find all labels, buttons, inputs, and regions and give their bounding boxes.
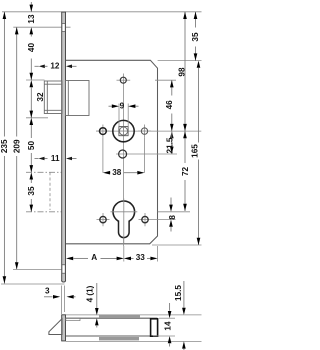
follower horizontal centerline bbox=[96, 130, 201, 132]
svg-text:235: 235 bbox=[0, 139, 9, 153]
lower right fixing hole bbox=[139, 213, 158, 226]
svg-text:9: 9 bbox=[120, 102, 125, 111]
side view: lock case bbox=[66, 318, 158, 336]
dim 13 bbox=[27, 2, 36, 37]
extension lines faceplate down to side view bbox=[61, 286, 63, 315]
dim 14 bbox=[164, 303, 173, 347]
svg-text:4 (1): 4 (1) bbox=[85, 285, 94, 302]
svg-text:35: 35 bbox=[27, 186, 36, 196]
deadbolt thrown position dashed bbox=[49, 172, 51, 210]
extension case right edge down to 33 dim bbox=[157, 246, 159, 262]
hole left of follower bbox=[96, 125, 109, 138]
dim 165 bbox=[191, 61, 201, 245]
case top extension right bbox=[158, 60, 202, 62]
faceplate bbox=[61, 12, 65, 283]
dim 11 bbox=[35, 154, 77, 163]
latch bottom extension line bbox=[26, 117, 48, 119]
svg-text:A: A bbox=[91, 253, 97, 262]
svg-text:35: 35 bbox=[191, 32, 200, 42]
dim 35 left bbox=[27, 172, 36, 212]
bottom screw hole extension line bbox=[13, 268, 62, 270]
lock case outline bbox=[66, 60, 158, 244]
svg-text:209: 209 bbox=[12, 139, 21, 153]
faceplate bottom extension line bbox=[1, 283, 65, 285]
svg-text:72: 72 bbox=[181, 167, 190, 177]
lower left fixing hole bbox=[97, 213, 110, 226]
top screw hole extension line bbox=[13, 26, 70, 28]
svg-text:21.5: 21.5 bbox=[165, 137, 174, 153]
dim 40 bbox=[27, 43, 36, 80]
svg-text:46: 46 bbox=[165, 100, 174, 110]
cylinder centerline left extension bbox=[26, 211, 66, 213]
svg-text:40: 40 bbox=[27, 43, 36, 53]
dim 98 bbox=[178, 12, 187, 131]
dim 38 bbox=[103, 168, 145, 177]
follower (handle hub) bbox=[113, 120, 134, 141]
case top side extension bbox=[159, 317, 175, 319]
svg-text:11: 11 bbox=[51, 154, 60, 163]
side view: latch bevel bbox=[49, 319, 62, 335]
dim 33 bbox=[124, 253, 158, 262]
svg-text:13: 13 bbox=[27, 14, 36, 24]
euro profile cylinder hole bbox=[111, 199, 138, 244]
dim 12 bbox=[35, 62, 77, 71]
side view: bottom plate band bbox=[99, 337, 139, 340]
side view: end cap bbox=[151, 319, 158, 336]
svg-text:165: 165 bbox=[191, 144, 200, 158]
dim 35 right bbox=[191, 12, 200, 61]
svg-text:3: 3 bbox=[45, 287, 50, 296]
dim 15.5 bbox=[174, 281, 186, 350]
dim 21.5 bbox=[165, 131, 174, 154]
hole right of follower bbox=[138, 125, 151, 138]
extension from left hole down to 38 dim bbox=[102, 138, 104, 173]
svg-text:15.5: 15.5 bbox=[174, 285, 183, 301]
top faceplate screw slot bbox=[62, 24, 65, 32]
dim 9 (follower square) bbox=[109, 102, 139, 127]
dim 32 bbox=[30, 80, 46, 118]
side view: faceplate top extension bbox=[66, 314, 202, 316]
cylinder center extension right bbox=[158, 211, 190, 213]
top hole extension to right bbox=[155, 79, 176, 81]
side view: top plate band bbox=[99, 315, 140, 318]
side view: faceplate bbox=[61, 315, 65, 342]
side view: faceplate bottom extension bbox=[66, 340, 202, 342]
case bottom side extension bbox=[153, 335, 175, 337]
svg-text:33: 33 bbox=[136, 253, 146, 262]
hole below follower bbox=[116, 150, 177, 158]
svg-text:32: 32 bbox=[36, 92, 45, 102]
deadbolt top centerline bbox=[26, 171, 61, 173]
latch top extension line bbox=[26, 79, 45, 81]
dim 3 (faceplate thickness) bbox=[44, 287, 76, 299]
svg-text:8: 8 bbox=[168, 215, 177, 220]
dim 72 bbox=[181, 131, 190, 211]
dim A (backset) bbox=[66, 253, 124, 262]
dim 209 bbox=[12, 27, 21, 269]
svg-text:12: 12 bbox=[50, 62, 60, 71]
svg-text:38: 38 bbox=[112, 168, 122, 177]
bottom faceplate screw slot bbox=[62, 265, 65, 273]
svg-text:98: 98 bbox=[178, 67, 187, 77]
extension from right hole down to 38 dim bbox=[144, 138, 146, 173]
svg-text:14: 14 bbox=[164, 321, 173, 331]
dim 4 (1) bbox=[85, 283, 98, 328]
top fixing hole bbox=[117, 77, 131, 83]
lower holes line extension right bbox=[158, 219, 176, 221]
dim 235 bbox=[0, 12, 9, 284]
latch bolt box bbox=[44, 81, 89, 116]
dim 8 bbox=[168, 198, 177, 232]
main vertical centerline bbox=[123, 74, 125, 247]
extension cylinder center down to A dim bbox=[123, 246, 125, 262]
case bottom extension right bbox=[152, 244, 202, 246]
faceplate top extension line bbox=[2, 11, 202, 13]
dim 50 bbox=[27, 118, 36, 173]
svg-text:50: 50 bbox=[27, 141, 36, 151]
dim 46 bbox=[165, 80, 174, 131]
